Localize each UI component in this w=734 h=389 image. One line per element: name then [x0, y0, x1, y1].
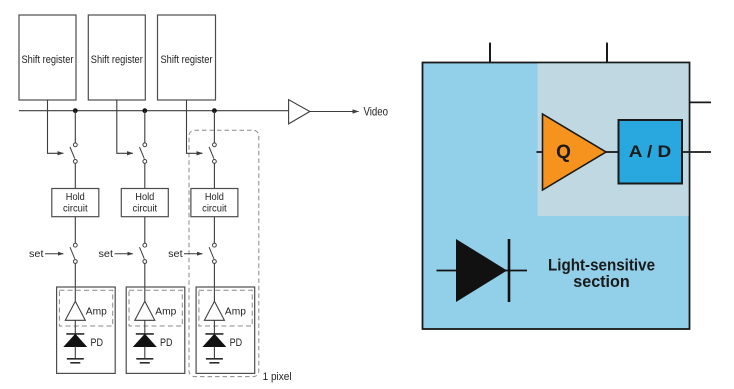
svg-text:Hold: Hold — [66, 192, 85, 203]
svg-text:PD: PD — [91, 337, 104, 349]
shift register box 2 — [88, 15, 145, 100]
svg-text:Shift register: Shift register — [161, 54, 213, 66]
wire: shift reg 3 to bus elbow — [187, 100, 203, 153]
svg-text:circuit: circuit — [202, 204, 227, 215]
svg-text:Amp: Amp — [155, 306, 176, 318]
wire hold to set switch col2 — [144, 217, 146, 244]
set arrow col3 — [184, 253, 202, 255]
svg-text:PD: PD — [230, 337, 243, 349]
wire set switch to amp col1 — [74, 264, 76, 302]
video output amplifier — [289, 100, 310, 124]
shift register box 1 — [19, 15, 76, 100]
photodiode PD col2 — [134, 334, 156, 359]
svg-text:Q: Q — [556, 142, 571, 163]
wire: shift reg 1 to bus elbow — [48, 100, 64, 153]
junction node col1 — [73, 108, 78, 113]
set switch col3 — [209, 243, 216, 263]
wire video amp output — [310, 111, 359, 113]
svg-text:Amp: Amp — [225, 306, 246, 318]
svg-text:set: set — [99, 248, 114, 260]
svg-text:section: section — [573, 273, 630, 291]
wire: shift reg 2 to bus elbow — [117, 100, 133, 153]
photodiode PD col1 — [64, 334, 86, 359]
wire set switch to amp col3 — [213, 264, 215, 302]
Q input stub — [537, 151, 544, 153]
svg-text:PD: PD — [160, 337, 173, 349]
svg-text:Hold: Hold — [205, 192, 224, 203]
svg-text:Amp: Amp — [86, 306, 107, 318]
ground col2 — [136, 359, 153, 363]
hold circuit box 1 — [52, 189, 99, 217]
svg-text:A / D: A / D — [629, 142, 672, 161]
svg-text:set: set — [168, 248, 183, 260]
pixel cell box 1 — [57, 287, 116, 373]
label Light-sensitive section — [548, 257, 655, 291]
pixel cell box 3 — [196, 287, 255, 373]
shift register box 3 — [158, 15, 216, 100]
video bus wire — [19, 110, 289, 112]
svg-text:Video: Video — [364, 104, 389, 118]
svg-text:Light-sensitive: Light-sensitive — [548, 257, 655, 275]
wire set switch to amp col2 — [144, 264, 146, 302]
address switch col1 — [70, 143, 77, 163]
photodiode (right diagram) — [437, 239, 528, 302]
wire amp to PD col3 — [213, 320, 215, 334]
amp dashed box 2 — [129, 290, 182, 326]
amplifier Q — [543, 114, 607, 190]
wire switch to hold circuit col2 — [144, 163, 146, 188]
amp triangle col1 — [65, 301, 85, 320]
wire bus to switch col1 — [74, 111, 76, 143]
amp dashed box 3 — [199, 290, 252, 326]
wire amp to PD col1 — [74, 320, 76, 334]
right pin 2 / AD output wire — [682, 151, 711, 153]
svg-text:Shift register: Shift register — [91, 54, 143, 66]
amp dashed box 1 — [59, 290, 112, 326]
ground col3 — [206, 359, 223, 363]
set switch col2 — [140, 243, 147, 263]
set arrow col2 — [115, 253, 133, 255]
svg-text:Shift register: Shift register — [22, 54, 74, 66]
wire switch to hold circuit col1 — [74, 163, 76, 188]
right pin 1 — [690, 101, 712, 103]
top pin 2 — [606, 43, 608, 63]
top pin 1 — [489, 43, 491, 63]
amp triangle col3 — [204, 301, 224, 320]
wire bus to switch col3 — [213, 111, 215, 143]
pixel body box — [423, 63, 690, 330]
amp triangle col2 — [135, 301, 155, 320]
svg-text:circuit: circuit — [63, 204, 88, 215]
junction node col2 — [142, 108, 147, 113]
hold circuit box 3 — [191, 189, 238, 217]
svg-text:1 pixel: 1 pixel — [263, 371, 292, 383]
dashed 1 pixel box — [189, 130, 259, 376]
set arrow col1 — [45, 253, 63, 255]
wire hold to set switch col1 — [74, 217, 76, 244]
junction node col3 — [212, 108, 217, 113]
ground col1 — [67, 359, 84, 363]
wire switch to hold circuit col3 — [213, 163, 215, 188]
A/D converter — [619, 120, 683, 184]
address switch col3 — [209, 143, 216, 163]
svg-text:circuit: circuit — [133, 204, 158, 215]
svg-text:set: set — [29, 248, 44, 260]
hold circuit box 2 — [121, 189, 168, 217]
photodiode PD col3 — [204, 334, 226, 359]
wire hold to set switch col3 — [213, 217, 215, 244]
wire amp to PD col2 — [144, 320, 146, 334]
wire bus to switch col2 — [144, 111, 146, 143]
address switch col2 — [140, 143, 147, 163]
circuit section region — [538, 63, 689, 216]
set switch col1 — [70, 243, 77, 263]
wire Q to A/D — [606, 151, 619, 153]
pixel cell box 2 — [126, 287, 185, 373]
svg-text:Hold: Hold — [135, 192, 154, 203]
